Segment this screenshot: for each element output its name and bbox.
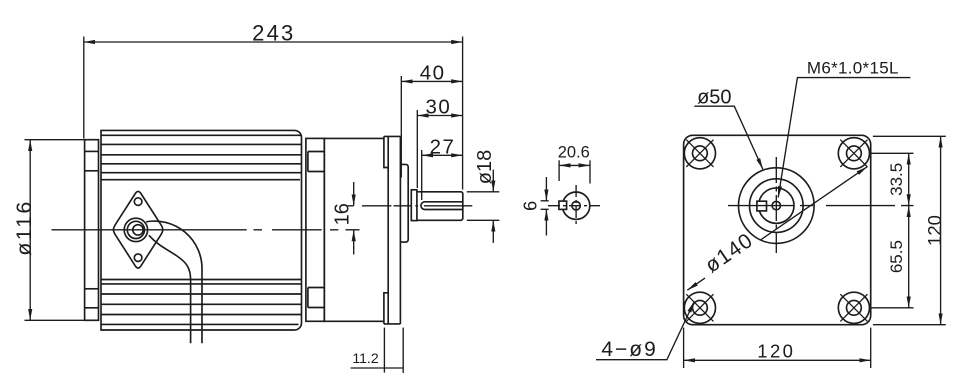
dim 40 bbox=[401, 76, 462, 178]
front bearing ring bbox=[306, 138, 324, 321]
motor finned body bbox=[101, 130, 302, 330]
bolt hole bottom-right bbox=[838, 292, 869, 323]
dim 65.5 bbox=[869, 206, 913, 308]
dim ø116 bbox=[25, 140, 85, 321]
bolt hole top-right bbox=[838, 138, 869, 169]
dim 120 bottom bbox=[684, 328, 871, 368]
gearbox housing bbox=[324, 138, 384, 321]
svg-text:65.5: 65.5 bbox=[887, 240, 906, 273]
dim 243 bbox=[84, 37, 463, 190]
dim ø140 diagonal bbox=[687, 278, 705, 290]
flange H centerline bbox=[728, 205, 914, 207]
shaft section circle bbox=[562, 192, 589, 219]
circle inner bbox=[759, 188, 794, 223]
svg-text:120: 120 bbox=[924, 215, 945, 246]
svg-text:4−ø9: 4−ø9 bbox=[601, 338, 657, 361]
keyway square bbox=[757, 201, 767, 211]
dim 20.6 bbox=[559, 160, 590, 183]
svg-text:ø18: ø18 bbox=[474, 150, 496, 184]
output boss ø50 bbox=[400, 164, 408, 242]
section H centerline bbox=[548, 205, 600, 207]
flange square bbox=[684, 135, 871, 324]
svg-text:30: 30 bbox=[425, 95, 451, 118]
shaft center hole bbox=[572, 202, 580, 210]
key bbox=[559, 201, 567, 209]
svg-text:33.5: 33.5 bbox=[887, 163, 906, 196]
svg-text:6: 6 bbox=[521, 201, 541, 211]
svg-text:40: 40 bbox=[420, 62, 446, 85]
svg-text:ø50: ø50 bbox=[697, 87, 731, 109]
flange V centerline bbox=[775, 157, 777, 253]
terminal box bottom hole bbox=[134, 254, 142, 262]
bolt hole bottom-left bbox=[684, 292, 715, 323]
dim 33.5 bbox=[869, 153, 913, 205]
leader M6 bbox=[778, 78, 910, 198]
svg-text:243: 243 bbox=[252, 20, 295, 45]
flange plate (side) bbox=[384, 136, 401, 324]
dim ø18 bbox=[467, 170, 500, 243]
leader 4-ø9 bbox=[596, 302, 694, 360]
svg-text:11.2: 11.2 bbox=[352, 350, 378, 366]
dim 11.2 bbox=[351, 328, 404, 373]
dim 6 bbox=[541, 177, 549, 236]
section V centerline bbox=[575, 185, 577, 227]
cable gland circles bbox=[124, 218, 147, 241]
circle mid bbox=[750, 179, 804, 233]
motor rear end-bell bbox=[85, 140, 99, 321]
output shaft ø18 bbox=[417, 192, 463, 221]
svg-text:M6*1.0*15L: M6*1.0*15L bbox=[807, 58, 899, 77]
M6 tap hole bbox=[772, 201, 780, 209]
motor centerline bbox=[52, 229, 360, 231]
svg-text:27: 27 bbox=[430, 135, 456, 158]
svg-text:20.6: 20.6 bbox=[558, 144, 590, 162]
svg-text:16: 16 bbox=[332, 203, 354, 225]
svg-text:120: 120 bbox=[757, 341, 795, 362]
shaft keyway bbox=[421, 202, 462, 210]
svg-text:ø116: ø116 bbox=[12, 199, 36, 255]
terminal box diamond bbox=[113, 191, 162, 268]
output shaft centerline bbox=[348, 205, 473, 207]
boss circle ø50 bbox=[739, 168, 815, 244]
dim 30 bbox=[417, 110, 462, 188]
leader ø50 bbox=[694, 106, 763, 169]
shaft collar bbox=[411, 190, 417, 221]
terminal box top hole bbox=[134, 198, 142, 206]
dim 16 bbox=[353, 182, 355, 255]
cable bbox=[146, 221, 202, 343]
svg-text:ø140: ø140 bbox=[701, 229, 757, 278]
dim 120 right bbox=[873, 136, 946, 324]
dim 27 bbox=[422, 150, 463, 200]
bolt hole top-left bbox=[684, 138, 715, 169]
